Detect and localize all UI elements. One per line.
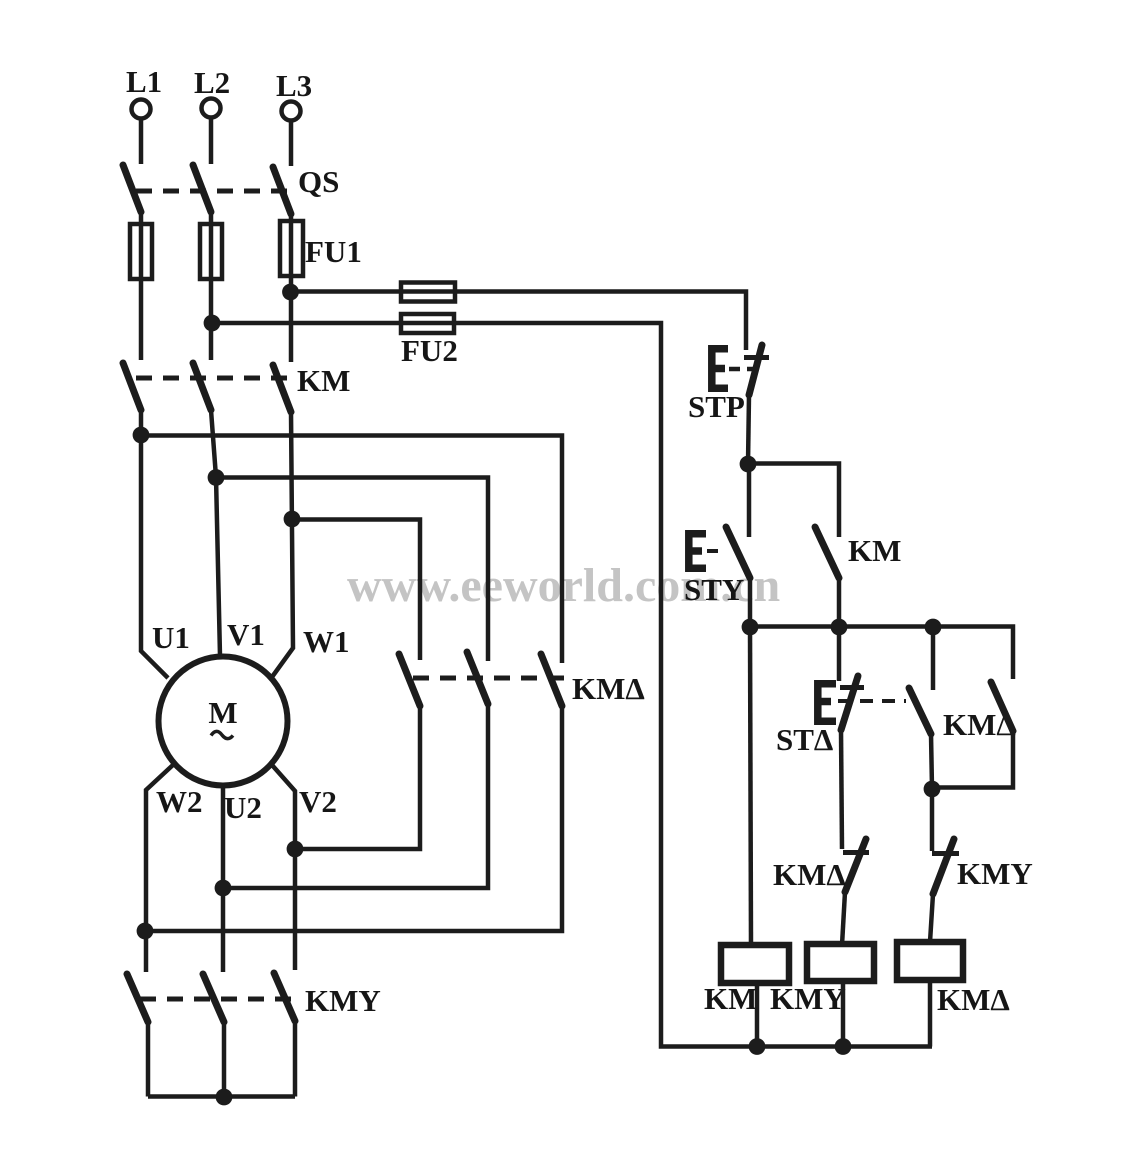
label V2 (299, 784, 337, 819)
label KMY contactor (305, 983, 381, 1018)
contactor KMdelta pole 1 blade (399, 654, 420, 706)
wire self-hold branch (748, 464, 839, 527)
contactor KMY pole 3 blade (274, 973, 295, 1021)
wire coil KMdelta to rail (928, 980, 933, 1047)
label KMdelta right (943, 707, 1016, 742)
terminal L3 (282, 102, 301, 167)
pushbutton STdelta (NC half) (818, 627, 864, 849)
svg-text:KMY: KMY (957, 856, 1033, 891)
node U2 junction (215, 880, 232, 897)
contactor KM pole 1 blade (123, 363, 141, 410)
label FU2 (401, 333, 458, 368)
label U1 (152, 620, 190, 655)
contact KM aux self-hold (815, 526, 839, 627)
node row left (742, 619, 759, 636)
contact KMdelta self-hold NO (932, 682, 1013, 788)
svg-text:V2: V2 (299, 784, 337, 819)
label KM aux (848, 533, 901, 568)
contact STdelta NO half (909, 627, 933, 788)
node row right (925, 619, 942, 636)
contactor KMdelta linkage dashed (413, 676, 567, 681)
label KM main (297, 363, 350, 398)
svg-text:KMY: KMY (770, 981, 846, 1016)
contactor KMY pole 2 blade (203, 974, 224, 1022)
wire motor W2 down (146, 764, 174, 972)
svg-text:FU1: FU1 (305, 234, 362, 269)
node L2 control tap (204, 315, 221, 332)
label KMdelta contactor (572, 671, 645, 706)
label STP (688, 389, 745, 424)
pushbutton STP (NC stop) (712, 345, 769, 464)
node V2 junction (287, 841, 304, 858)
wire KM pole3 to motor W1 (272, 412, 293, 677)
wire KM coil branch (750, 627, 751, 945)
label L2 (194, 65, 230, 100)
wire coil KMY to rail (841, 981, 846, 1046)
node star point (216, 1089, 233, 1106)
wire control phase B (212, 323, 932, 1047)
coil KMY (807, 944, 874, 981)
wire KM pole1 to motor U1 (141, 410, 168, 678)
pushbutton STdelta linkage dashed (838, 699, 906, 703)
wire control phase A (291, 292, 746, 351)
contactor KM linkage dashed (136, 376, 292, 381)
svg-text:U1: U1 (152, 620, 190, 655)
svg-text:L2: L2 (194, 65, 230, 100)
coil KM (721, 945, 789, 983)
contactor KM pole 3 blade (273, 365, 291, 412)
label FU1 (305, 234, 362, 269)
fuse FU1 pole 1 (130, 224, 152, 279)
coil KMdelta (897, 942, 963, 980)
svg-text:U2: U2 (224, 790, 262, 825)
switch QS linkage dashed (136, 189, 292, 194)
label L3 (276, 68, 312, 103)
svg-text:L3: L3 (276, 68, 312, 103)
wire control row (749, 627, 1013, 680)
pushbutton STY (NO start star) (689, 464, 750, 627)
node KMdelta branch junction (924, 781, 941, 798)
label STdelta (776, 722, 833, 757)
node U1 delta tap (133, 427, 150, 444)
wire L2 QS to KM through fuse (209, 212, 214, 360)
node V1 delta tap (208, 469, 225, 486)
svg-text:KMΔ: KMΔ (773, 857, 846, 892)
svg-text:QS: QS (298, 164, 339, 199)
node STP bottom junction (740, 456, 757, 473)
contactor KMY pole 1 blade (127, 974, 148, 1022)
switch QS pole 1 blade (123, 165, 141, 212)
wire motor V2 down (272, 765, 295, 970)
label QS (298, 164, 339, 199)
fuse FU1 pole 3 (280, 221, 303, 276)
svg-text:M: M (208, 695, 237, 730)
fuse FU2 upper (401, 283, 455, 302)
terminal L2 (202, 99, 221, 165)
wire motor U2 down (221, 786, 226, 973)
label L1 (126, 64, 162, 99)
svg-text:FU2: FU2 (401, 333, 458, 368)
motor M (159, 657, 288, 786)
terminal L1 (132, 100, 151, 165)
svg-text:KMΔ: KMΔ (572, 671, 645, 706)
wire KMdelta pole1 to V2 (295, 706, 420, 849)
svg-text:KMY: KMY (305, 983, 381, 1018)
wire KM pole2 to motor V1 (211, 410, 220, 656)
wire KMY pole1 to star rail (146, 1022, 151, 1097)
label W1 (303, 624, 350, 659)
switch QS pole 2 blade (193, 165, 211, 212)
wire KMdelta pole3 to W2 (145, 706, 562, 931)
wire KMY pole2 to star rail (222, 1022, 227, 1097)
label coil KMY (770, 981, 846, 1016)
wire KMY pole3 to star rail (293, 1021, 298, 1097)
svg-text:L1: L1 (126, 64, 162, 99)
wire delta feed from U1 (141, 436, 562, 664)
switch QS pole 3 blade (273, 167, 291, 214)
svg-text:KM: KM (297, 363, 350, 398)
wire coil KM to rail (755, 983, 760, 1046)
node L3 control tap (282, 284, 299, 301)
contactor KMdelta pole 2 blade (467, 652, 488, 704)
label coil KM (704, 981, 757, 1016)
wire delta feed from W1 (292, 520, 420, 661)
wire KMdelta pole2 to U2 (223, 704, 488, 888)
label coil KMdelta (937, 982, 1010, 1017)
wire L1 QS to KM through fuse (139, 212, 144, 360)
svg-text:KM: KM (848, 533, 901, 568)
svg-text:V1: V1 (227, 617, 265, 652)
contactor KMY linkage dashed (140, 997, 301, 1002)
svg-text:W2: W2 (156, 784, 203, 819)
label W2 (156, 784, 203, 819)
contact KMdelta NC interlock (842, 839, 869, 945)
contact KMY NC interlock (930, 789, 959, 942)
svg-text:STY: STY (684, 572, 744, 607)
label STY (684, 572, 744, 607)
fuse FU1 pole 2 (200, 224, 222, 279)
node W2 junction (137, 923, 154, 940)
contactor KMdelta pole 3 blade (541, 654, 562, 706)
svg-text:W1: W1 (303, 624, 350, 659)
contactor KM pole 2 blade (193, 363, 211, 410)
wire L3 QS to KM through fuse (289, 214, 294, 362)
node row middle (831, 619, 848, 636)
fuse FU2 lower (401, 314, 454, 333)
svg-text:KM: KM (704, 981, 757, 1016)
wire star point rail (148, 1094, 295, 1099)
label V1 (227, 617, 265, 652)
node coil KMY rail (835, 1038, 852, 1055)
svg-text:STΔ: STΔ (776, 722, 833, 757)
label KMY NC (957, 856, 1033, 891)
label KMdelta NC (773, 857, 846, 892)
node coil KM rail (749, 1038, 766, 1055)
svg-text:STP: STP (688, 389, 745, 424)
wire delta feed from V1 (216, 478, 488, 662)
node W1 delta tap (284, 511, 301, 528)
svg-text:KMΔ: KMΔ (937, 982, 1010, 1017)
watermark (347, 559, 780, 612)
label U2 (224, 790, 262, 825)
